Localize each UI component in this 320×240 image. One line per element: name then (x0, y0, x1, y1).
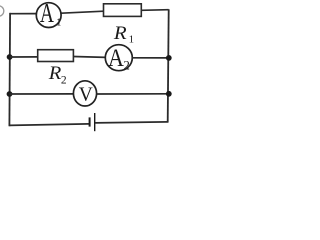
svg-text:A: A (108, 45, 124, 73)
wire row3 a (10, 93, 75, 95)
svg-text:R: R (113, 23, 127, 44)
label R1 (113, 23, 134, 45)
svg-text:1: 1 (129, 34, 135, 46)
node row3-right (166, 91, 172, 97)
svg-text:V: V (79, 83, 93, 105)
node row2-right (166, 55, 172, 61)
cropped circle artifact at left edge (0, 6, 4, 17)
voltmeter V (73, 81, 96, 106)
wire top-right segment (141, 9, 168, 12)
resistor R1 (104, 4, 142, 17)
label R2 (48, 63, 67, 87)
wire bottom-left segment (9, 124, 89, 126)
wire left vertical (8, 13, 11, 126)
wire top-left segment (10, 13, 37, 15)
wire top-middle segment (61, 11, 103, 13)
svg-text:1: 1 (56, 16, 62, 28)
node row2-left (7, 54, 13, 60)
wire right vertical (168, 9, 169, 122)
svg-text:2: 2 (61, 75, 67, 87)
wire row2 b (73, 56, 106, 59)
wire bottom-right segment (95, 122, 168, 123)
battery long plate (94, 113, 96, 131)
wire row3 b (97, 93, 169, 95)
battery short plate (89, 117, 91, 126)
resistor R2 (38, 50, 74, 62)
svg-text:R: R (48, 63, 62, 84)
ammeter A2 (105, 45, 132, 73)
svg-text:2: 2 (123, 58, 130, 73)
svg-text:A: A (40, 0, 54, 29)
ammeter A1 (36, 0, 61, 29)
wire row2 a (10, 56, 38, 58)
node row3-left (7, 91, 13, 97)
wire row2 c (132, 57, 169, 59)
